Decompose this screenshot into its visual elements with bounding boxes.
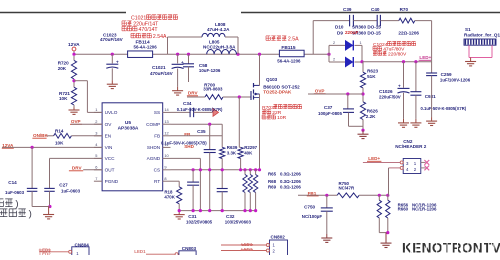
svg-text:470uF/16V: 470uF/16V bbox=[100, 37, 124, 42]
svg-text:3.3K: 3.3K bbox=[227, 150, 237, 155]
svg-text:R68: R68 bbox=[268, 179, 277, 184]
svg-text:RT: RT bbox=[154, 179, 160, 184]
svg-text:51K: 51K bbox=[367, 74, 376, 79]
svg-text:C1026: C1026 bbox=[379, 89, 393, 94]
svg-text:U5: U5 bbox=[125, 120, 131, 126]
svg-text:1: 1 bbox=[360, 41, 362, 45]
svg-text:6: 6 bbox=[95, 165, 97, 170]
svg-text:NC/47R: NC/47R bbox=[339, 185, 355, 190]
svg-text:C750: C750 bbox=[304, 205, 315, 210]
svg-text:2: 2 bbox=[414, 167, 417, 172]
svg-text:COMP: COMP bbox=[146, 122, 160, 127]
svg-text:UVLO: UVLO bbox=[105, 110, 118, 115]
svg-text:2: 2 bbox=[95, 119, 97, 124]
svg-text:33R-0603: 33R-0603 bbox=[203, 87, 223, 92]
svg-text:10K: 10K bbox=[59, 96, 68, 101]
svg-text:AGND: AGND bbox=[147, 156, 161, 161]
svg-text:R660: R660 bbox=[398, 207, 409, 212]
svg-text:VIN: VIN bbox=[105, 145, 113, 150]
svg-text:14: 14 bbox=[164, 107, 169, 112]
svg-text:OV: OV bbox=[105, 122, 113, 127]
svg-text:9: 9 bbox=[164, 165, 166, 170]
svg-text:C40: C40 bbox=[371, 7, 380, 12]
svg-text:470K: 470K bbox=[164, 195, 175, 200]
svg-text:0.3Ω-1206: 0.3Ω-1206 bbox=[280, 185, 301, 190]
svg-text:0.1uF-50V-K-0805(X7R): 0.1uF-50V-K-0805(X7R) bbox=[177, 107, 223, 112]
svg-text:22Ω-1206: 22Ω-1206 bbox=[398, 31, 419, 36]
svg-text:): ) bbox=[29, 209, 32, 220]
svg-text:+: + bbox=[398, 83, 401, 88]
svg-text:C34: C34 bbox=[183, 101, 192, 106]
svg-text:C58: C58 bbox=[199, 63, 208, 68]
svg-text:470/14T: 470/14T bbox=[139, 27, 159, 33]
svg-text:3: 3 bbox=[406, 161, 409, 166]
svg-text:Q103: Q103 bbox=[266, 77, 278, 82]
svg-text:C39: C39 bbox=[343, 7, 352, 12]
svg-text:R720: R720 bbox=[58, 60, 69, 65]
svg-text:C1021: C1021 bbox=[152, 65, 166, 70]
svg-text:1: 1 bbox=[273, 242, 276, 247]
svg-text:R626: R626 bbox=[367, 108, 378, 113]
svg-text:56-4A-1206: 56-4A-1206 bbox=[134, 44, 158, 49]
svg-text:4: 4 bbox=[406, 167, 409, 172]
svg-text:10R: 10R bbox=[277, 115, 286, 121]
svg-text:SS: SS bbox=[154, 110, 160, 115]
svg-text:LED+: LED+ bbox=[368, 156, 380, 161]
svg-text:SHD: SHD bbox=[184, 144, 194, 149]
svg-text:1: 1 bbox=[414, 161, 417, 166]
svg-text:TO252-DPAK: TO252-DPAK bbox=[263, 90, 292, 95]
svg-text:DRV: DRV bbox=[188, 91, 199, 96]
svg-text:8: 8 bbox=[164, 176, 166, 181]
svg-text:0.3Ω-1206: 0.3Ω-1206 bbox=[280, 171, 301, 176]
svg-text:NCC22uH-3.8A: NCC22uH-3.8A bbox=[203, 45, 236, 50]
svg-text:CS: CS bbox=[154, 168, 161, 173]
svg-text:DRV: DRV bbox=[72, 166, 83, 171]
svg-text:10uF-1206: 10uF-1206 bbox=[199, 68, 221, 73]
svg-text:0.3Ω-1206: 0.3Ω-1206 bbox=[280, 179, 301, 184]
svg-text:1: 1 bbox=[76, 251, 79, 255]
svg-text:C931: C931 bbox=[425, 94, 436, 99]
svg-text:2.5A: 2.5A bbox=[288, 37, 299, 43]
svg-text:1: 1 bbox=[95, 107, 97, 112]
svg-text:NC/1R-1206: NC/1R-1206 bbox=[412, 207, 437, 212]
svg-text:R70: R70 bbox=[400, 7, 409, 12]
svg-text:3: 3 bbox=[95, 131, 97, 136]
svg-text:SHDN: SHDN bbox=[147, 145, 160, 150]
svg-text:220uF: 220uF bbox=[345, 30, 358, 35]
svg-text:220/80V: 220/80V bbox=[388, 51, 407, 57]
svg-text:NC/100pF: NC/100pF bbox=[302, 214, 323, 219]
svg-text:D9: D9 bbox=[337, 31, 343, 36]
svg-text:220uF/50V: 220uF/50V bbox=[379, 94, 401, 99]
svg-text:2: 2 bbox=[273, 248, 276, 253]
svg-text:ON/BK: ON/BK bbox=[33, 133, 48, 138]
svg-text:C31: C31 bbox=[188, 214, 197, 219]
svg-text:OVP: OVP bbox=[71, 119, 81, 124]
svg-text:10K: 10K bbox=[55, 141, 64, 146]
svg-text:40K: 40K bbox=[244, 150, 253, 155]
svg-text:Radiator_for_Q1: Radiator_for_Q1 bbox=[464, 32, 500, 37]
svg-text:100pF-0805: 100pF-0805 bbox=[318, 111, 342, 116]
svg-text:PGND: PGND bbox=[105, 179, 119, 184]
svg-text:R65: R65 bbox=[268, 171, 277, 176]
svg-text:1uF-0603: 1uF-0603 bbox=[61, 188, 81, 193]
svg-text:CN802: CN802 bbox=[271, 235, 286, 240]
svg-text:C37: C37 bbox=[324, 105, 333, 110]
svg-text:2: 2 bbox=[333, 57, 335, 61]
svg-text:12: 12 bbox=[164, 131, 168, 136]
svg-text:1uF/100V-1206: 1uF/100V-1206 bbox=[440, 78, 471, 83]
svg-text:FB: FB bbox=[154, 134, 160, 139]
svg-text:AP3038A: AP3038A bbox=[118, 125, 139, 131]
svg-text:5: 5 bbox=[95, 153, 97, 158]
svg-text:OUT: OUT bbox=[105, 168, 115, 173]
svg-text:D10: D10 bbox=[335, 25, 344, 30]
svg-text:7: 7 bbox=[95, 176, 97, 181]
svg-text:20K: 20K bbox=[58, 66, 67, 71]
svg-text:2: 2 bbox=[333, 41, 335, 45]
svg-text:C1021: C1021 bbox=[131, 16, 146, 22]
svg-text:VCC: VCC bbox=[105, 156, 116, 161]
svg-text:470uF/16V: 470uF/16V bbox=[150, 71, 174, 76]
svg-text:10: 10 bbox=[164, 153, 169, 158]
svg-text:1uF-0603: 1uF-0603 bbox=[5, 190, 25, 195]
svg-text:103/25V0603: 103/25V0603 bbox=[225, 220, 252, 225]
svg-text:R69: R69 bbox=[268, 185, 277, 190]
svg-text:OVP: OVP bbox=[315, 89, 325, 94]
svg-text:56-4A-1206: 56-4A-1206 bbox=[277, 58, 301, 63]
svg-text:EN: EN bbox=[105, 134, 112, 139]
svg-text:LED2: LED2 bbox=[39, 251, 51, 255]
svg-text:2.54A: 2.54A bbox=[153, 34, 167, 40]
svg-text:C14: C14 bbox=[8, 180, 17, 185]
svg-text:13: 13 bbox=[164, 119, 168, 124]
svg-text:4: 4 bbox=[95, 142, 98, 147]
svg-text:KENOTRONTV: KENOTRONTV bbox=[402, 240, 500, 255]
svg-text:102/25V0805: 102/25V0805 bbox=[186, 220, 213, 225]
svg-text:C32: C32 bbox=[226, 214, 235, 219]
svg-text:): ) bbox=[15, 199, 18, 210]
svg-text:R721: R721 bbox=[59, 91, 70, 96]
svg-text:FB115: FB115 bbox=[281, 45, 295, 51]
svg-text:NC/HEADER 2: NC/HEADER 2 bbox=[395, 144, 427, 149]
svg-text:C27: C27 bbox=[59, 183, 68, 188]
svg-text:LED1: LED1 bbox=[134, 249, 146, 254]
svg-text:LED+: LED+ bbox=[419, 55, 431, 60]
svg-text:R623: R623 bbox=[367, 69, 378, 74]
svg-text:CN803: CN803 bbox=[182, 246, 197, 251]
svg-text:R14: R14 bbox=[55, 128, 64, 133]
svg-text:0.1uF-50V-K-0805(X7R): 0.1uF-50V-K-0805(X7R) bbox=[421, 106, 467, 111]
svg-text:C259: C259 bbox=[441, 72, 452, 77]
svg-text:C35: C35 bbox=[197, 129, 206, 134]
svg-text:47uH-4.2A: 47uH-4.2A bbox=[207, 27, 230, 32]
svg-text:2.2K: 2.2K bbox=[366, 114, 376, 119]
